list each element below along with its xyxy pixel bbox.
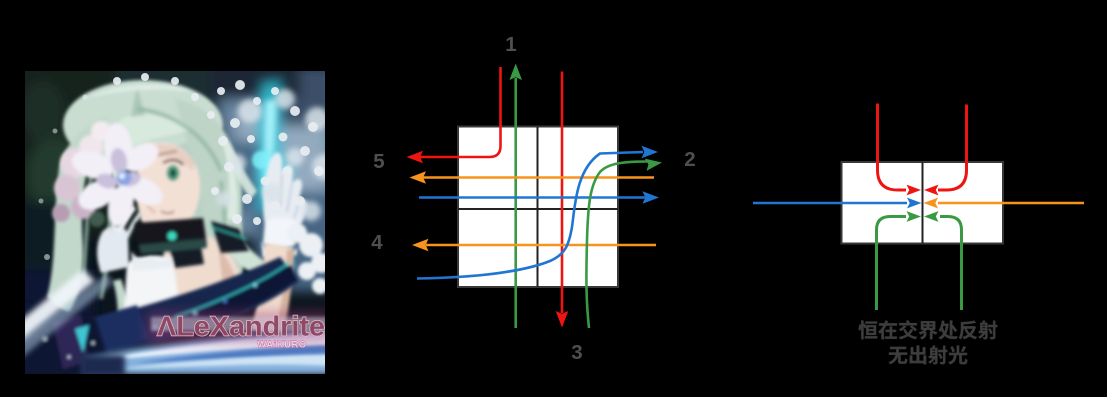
- svg-text:3: 3: [571, 341, 582, 364]
- svg-text:2: 2: [684, 148, 695, 171]
- svg-text:4: 4: [371, 231, 383, 254]
- svg-text:ΛLeXandrite: ΛLeXandrite: [157, 311, 325, 342]
- svg-text:WAiKURO: WAiKURO: [257, 340, 306, 351]
- svg-text:5: 5: [373, 150, 384, 173]
- svg-text:1: 1: [505, 33, 516, 56]
